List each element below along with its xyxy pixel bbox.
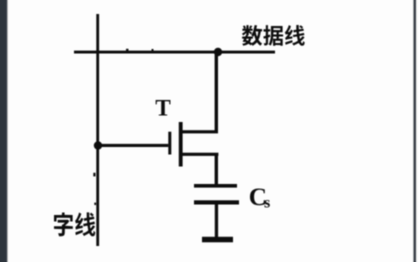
- svg-text:T: T: [155, 95, 171, 121]
- svg-text:s: s: [264, 194, 270, 211]
